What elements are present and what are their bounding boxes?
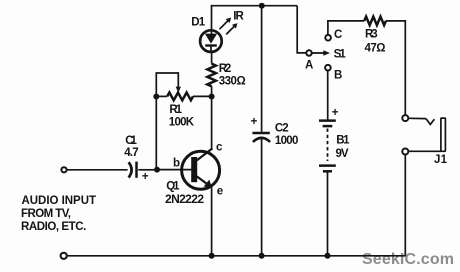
- svg-text:A: A: [305, 60, 313, 72]
- battery B1: [319, 121, 336, 172]
- svg-text:330Ω: 330Ω: [219, 76, 246, 88]
- switch S1 contact C: [325, 35, 331, 41]
- resistor R1 (potentiometer): [167, 93, 193, 101]
- svg-text:c: c: [216, 142, 223, 154]
- wire J1 sleeve contact: [409, 150, 441, 152]
- wire top rail down to C2: [261, 6, 263, 132]
- wire R2 to collector node: [211, 86, 213, 96]
- wire base lead: [157, 169, 192, 171]
- wire R1 wiper link: [156, 73, 178, 97]
- resistor R3: [364, 17, 386, 26]
- svg-text:FROM TV,: FROM TV,: [21, 208, 71, 220]
- wire C2 to bottom rail: [261, 138, 263, 256]
- junction R2 / R1 right / collector rail: [209, 94, 215, 100]
- R1 wiper arrowhead: [176, 87, 181, 93]
- transistor Q1: [182, 148, 220, 189]
- capacitor C1: [129, 162, 137, 178]
- svg-text:B: B: [334, 69, 342, 81]
- svg-text:100K: 100K: [169, 116, 195, 128]
- svg-text:+: +: [142, 171, 149, 183]
- junction C2 / bottom rail: [259, 253, 265, 259]
- jack J1 sleeve terminal: [402, 149, 408, 155]
- node base junction: [154, 167, 160, 173]
- LED D1: [200, 30, 222, 53]
- jack J1 tip terminal: [402, 115, 408, 121]
- wire R1 left down to base node: [155, 97, 157, 170]
- wire D1 anode lead: [211, 5, 213, 34]
- svg-text:IR: IR: [233, 11, 244, 23]
- svg-text:R1: R1: [169, 104, 182, 116]
- J1 plug body: [441, 118, 446, 151]
- svg-text:C2: C2: [275, 123, 289, 135]
- wire contact C up to R3: [328, 21, 364, 35]
- wire J1 tip contact: [409, 117, 426, 119]
- J1 spring contact: [426, 119, 434, 125]
- wire collector rail: [211, 97, 213, 150]
- resistor R2: [207, 64, 216, 87]
- svg-text:SeekIC.com: SeekIC.com: [362, 251, 454, 268]
- svg-text:4.7: 4.7: [124, 147, 139, 159]
- wire emitter to bottom rail: [211, 188, 213, 256]
- svg-text:2N2222: 2N2222: [165, 192, 204, 206]
- terminal audio input bottom: [61, 253, 67, 259]
- wire R1 left lead: [156, 95, 167, 97]
- svg-text:C1: C1: [125, 135, 137, 147]
- svg-text:+: +: [251, 116, 258, 128]
- wire R1 right lead: [193, 95, 212, 97]
- wire C1 to base node: [138, 169, 154, 171]
- switch S1 arm arrow: [312, 50, 330, 56]
- terminal audio input top: [61, 167, 66, 172]
- svg-text:e: e: [217, 185, 223, 197]
- switch S1 pole terminal A: [306, 50, 311, 55]
- svg-text:C: C: [334, 29, 342, 41]
- wire battery - to bottom rail: [327, 172, 329, 255]
- svg-text:b: b: [173, 157, 180, 169]
- junction top rail / C2 branch: [259, 3, 265, 9]
- svg-text:R3: R3: [365, 29, 378, 41]
- wire R3 down to jack tip: [386, 21, 405, 115]
- wire bottom ground rail: [67, 255, 406, 257]
- capacitor C2: [252, 133, 270, 142]
- svg-text:RADIO, ETC.: RADIO, ETC.: [21, 221, 86, 233]
- junction emitter / bottom rail: [209, 253, 215, 259]
- junction R1 left / wiper / base branch: [153, 94, 159, 100]
- svg-text:47Ω: 47Ω: [365, 43, 386, 55]
- svg-text:R2: R2: [219, 63, 232, 75]
- junction battery / bottom rail: [325, 253, 331, 259]
- switch S1 contact B: [325, 65, 331, 71]
- IR emission arrow 2: [226, 23, 237, 34]
- svg-text:+: +: [332, 107, 339, 119]
- wire top rail to switch pole A: [297, 6, 306, 53]
- svg-text:Q1: Q1: [166, 181, 180, 193]
- svg-text:S1: S1: [334, 48, 347, 60]
- svg-text:B1: B1: [336, 134, 350, 146]
- svg-text:AUDIO INPUT: AUDIO INPUT: [22, 195, 97, 207]
- IR emission arrow 1: [220, 18, 232, 30]
- svg-text:9V: 9V: [336, 148, 349, 160]
- wire top positive rail: [212, 5, 298, 7]
- wire input to C1: [67, 169, 128, 171]
- wire contact B down to battery +: [327, 71, 329, 120]
- svg-text:J1: J1: [434, 154, 448, 166]
- wire J1 sleeve to bottom rail: [404, 155, 406, 256]
- wire D1 cathode to R2: [211, 53, 213, 64]
- svg-text:1000: 1000: [275, 135, 299, 147]
- svg-text:D1: D1: [191, 16, 205, 28]
